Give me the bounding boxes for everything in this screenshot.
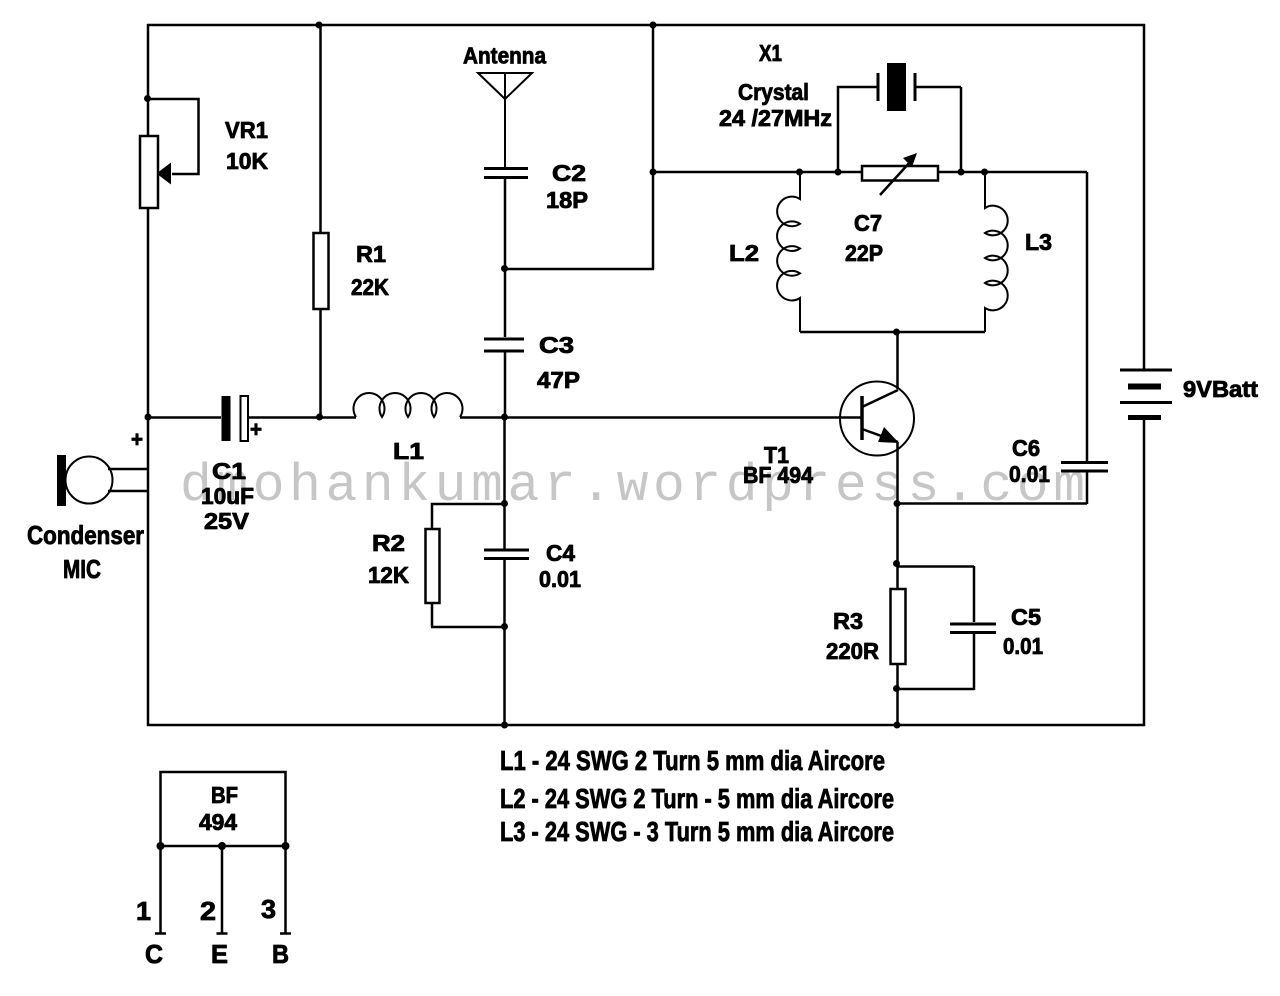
svg-text:R1: R1	[356, 241, 386, 267]
svg-text:C4: C4	[546, 540, 575, 566]
node pin1	[157, 842, 165, 850]
wire L1 to base	[460, 416, 862, 419]
pin 2 leg	[217, 846, 228, 934]
wire C5 top loop	[897, 566, 974, 622]
wire tank bottom rail	[800, 331, 985, 334]
wire junction to riser	[504, 268, 654, 271]
node VR1 wiper top	[144, 95, 151, 102]
wire top rail	[147, 24, 1145, 27]
svg-text:9VBatt: 9VBatt	[1183, 376, 1258, 402]
capacitor C6	[1061, 463, 1108, 472]
wire C4 top lead	[503, 418, 506, 549]
svg-text:Condenser: Condenser	[27, 520, 144, 550]
svg-text:E: E	[211, 939, 228, 969]
capacitor C1 negative plate	[241, 396, 249, 441]
wire main rail left segment	[148, 416, 221, 419]
wire R3 bottom lead	[896, 664, 899, 726]
inductor L1	[353, 393, 462, 417]
svg-text:220R: 220R	[826, 638, 879, 664]
svg-text:C3: C3	[539, 332, 574, 358]
resistor R1 body	[314, 233, 329, 309]
wire tank top rail left	[653, 171, 862, 174]
wire riser to top rail	[652, 24, 655, 269]
wire R2 top loop	[432, 504, 504, 529]
svg-text:R2: R2	[372, 530, 405, 556]
svg-text:C2: C2	[552, 160, 586, 186]
crystal X1 symbol	[878, 63, 915, 111]
node R3 bottom junction	[893, 685, 900, 692]
wire C3 top lead	[504, 268, 507, 337]
svg-text:R3: R3	[833, 608, 863, 634]
wire crystal left leg	[838, 87, 878, 172]
inductor L3	[985, 172, 1008, 332]
resistor R2 body	[426, 529, 440, 603]
wire C6 bottom lead	[897, 472, 1087, 504]
node L2 top	[796, 169, 803, 176]
wire VR1 wiper loop	[148, 99, 199, 174]
node R1 bottom on rail	[316, 414, 323, 421]
wire C3 bottom lead	[504, 352, 507, 418]
svg-text:18P: 18P	[546, 187, 588, 213]
wire right vertical battery top	[1143, 24, 1146, 369]
node emitter bottom rail	[894, 722, 901, 729]
svg-text:+: +	[131, 427, 143, 452]
node L1 right junction	[501, 414, 508, 421]
capacitor C2	[484, 169, 528, 178]
node R1 top	[316, 22, 323, 29]
node C4 bottom rail	[501, 722, 508, 729]
svg-text:L3 - 24 SWG - 3 Turn 5 mm dia: L3 - 24 SWG - 3 Turn 5 mm dia Aircore	[500, 816, 894, 847]
svg-text:0.01: 0.01	[539, 566, 581, 592]
wiper arrow VR1	[157, 163, 172, 185]
svg-text:2: 2	[200, 896, 216, 926]
svg-text:10uF: 10uF	[201, 483, 254, 509]
svg-text:10K: 10K	[226, 148, 268, 174]
svg-text:Antenna: Antenna	[463, 43, 546, 69]
wire C1 to L1	[248, 416, 356, 419]
antenna symbol	[478, 73, 532, 167]
node riser tank	[650, 169, 657, 176]
transistor T1	[840, 332, 914, 504]
node crystal left on rail	[835, 169, 842, 176]
svg-text:VR1: VR1	[225, 117, 268, 143]
svg-text:C: C	[145, 939, 163, 969]
wire crystal right leg	[915, 87, 961, 172]
svg-text:22K: 22K	[351, 274, 389, 300]
trimmer arrow C7	[880, 153, 917, 195]
wire R2 bottom loop	[431, 603, 504, 627]
svg-text:L2: L2	[729, 240, 759, 266]
svg-text:C7: C7	[854, 210, 882, 236]
wire C5 bottom loop	[897, 633, 974, 690]
node riser top	[650, 22, 657, 29]
wire right vertical battery bottom	[1143, 419, 1146, 726]
svg-text:L1: L1	[393, 438, 424, 464]
svg-text:dmohankumar.wordpress.com: dmohankumar.wordpress.com	[180, 456, 1085, 516]
svg-text:25V: 25V	[204, 508, 250, 534]
wire R1 bottom lead	[319, 309, 322, 418]
svg-text:3: 3	[261, 894, 276, 924]
node L3 top	[981, 169, 988, 176]
condenser mic	[57, 455, 148, 506]
node pin3	[282, 842, 290, 850]
svg-text:C5: C5	[1011, 604, 1041, 630]
svg-text:B: B	[272, 939, 289, 969]
node crystal right on rail	[958, 169, 965, 176]
svg-text:MIC: MIC	[63, 554, 101, 584]
wire C4 bottom lead	[503, 559, 506, 726]
svg-text:24 /27MHz: 24 /27MHz	[719, 105, 832, 131]
svg-text:0.01: 0.01	[1003, 633, 1043, 659]
svg-text:L2 - 24 SWG 2 Turn - 5 mm dia: L2 - 24 SWG 2 Turn - 5 mm dia Aircore	[500, 783, 894, 814]
svg-text:X1: X1	[759, 40, 782, 66]
wire C6 top lead	[1086, 172, 1089, 461]
svg-text:Crystal: Crystal	[738, 79, 809, 105]
node emitter C6 junction	[894, 500, 901, 507]
wire emitter to R3	[896, 504, 899, 589]
potentiometer VR1 body	[140, 136, 158, 208]
capacitor C3	[484, 339, 524, 351]
capacitor C4	[484, 550, 529, 559]
node R2 bottom junction	[501, 623, 508, 630]
svg-text:+: +	[250, 417, 262, 442]
svg-text:0.01: 0.01	[1009, 461, 1050, 487]
wire R1 top lead	[319, 25, 322, 233]
resistor R3 body	[891, 589, 906, 664]
wire C2 bottom to node	[504, 178, 507, 269]
capacitor C5	[950, 624, 996, 633]
pin 3 leg	[280, 846, 291, 934]
svg-text:BF 494: BF 494	[743, 462, 813, 488]
node left rail	[145, 414, 152, 421]
battery 9V	[1120, 370, 1172, 420]
trimmer capacitor C7 body	[862, 166, 938, 181]
svg-text:C1: C1	[212, 458, 246, 484]
node R2 top junction	[501, 500, 508, 507]
svg-text:12K: 12K	[368, 562, 409, 588]
svg-text:22P: 22P	[845, 240, 883, 266]
node collector tank	[893, 329, 900, 336]
svg-text:C6: C6	[1012, 435, 1040, 461]
transistor pinout box BF 494	[161, 772, 286, 846]
node pin2	[218, 842, 226, 850]
svg-text:1: 1	[136, 896, 151, 926]
svg-text:47P: 47P	[537, 367, 580, 393]
inductor L2	[777, 172, 800, 332]
wire bottom rail	[147, 724, 1145, 727]
wire tank top rail right	[938, 171, 1087, 174]
capacitor C1 positive plate	[222, 396, 231, 441]
svg-text:L1 - 24 SWG 2 Turn 5 mm dia A: L1 - 24 SWG 2 Turn 5 mm dia Aircore	[500, 745, 885, 776]
svg-text:BF: BF	[211, 782, 238, 808]
svg-text:494: 494	[199, 809, 237, 835]
pin 1 leg	[155, 846, 166, 934]
wire left vertical	[147, 24, 150, 726]
svg-text:L3: L3	[1025, 229, 1052, 255]
node C2 C3 junction	[501, 265, 508, 272]
node R3 top junction	[893, 560, 900, 567]
